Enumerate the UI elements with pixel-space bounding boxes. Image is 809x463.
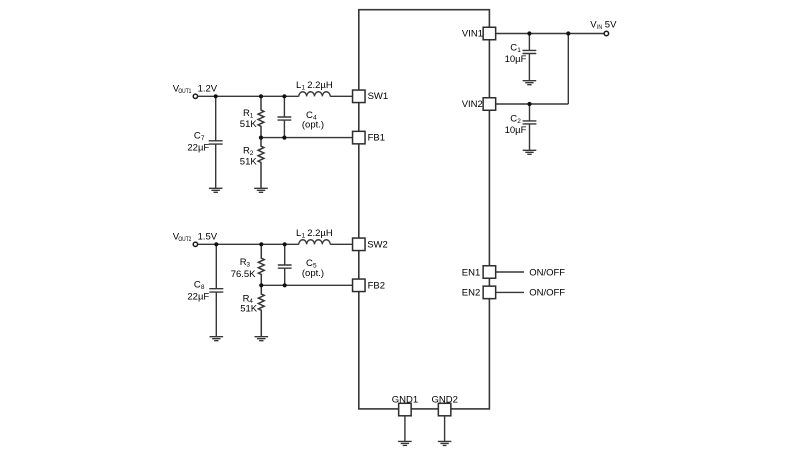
label R4 51K [240, 294, 258, 315]
svg-text:L: L [296, 228, 301, 239]
wire VOUT2 row left [198, 243, 299, 245]
label VOUT1 1.2V [173, 83, 218, 95]
ground (C1) [523, 81, 537, 85]
pin SW1 [353, 90, 366, 103]
label R1 51K [240, 108, 258, 130]
svg-text:51K: 51K [240, 156, 258, 167]
wire GND2 [444, 416, 446, 442]
capacitor C4 [278, 96, 292, 137]
pin GND1 [399, 403, 412, 416]
label C2 10uF [505, 114, 527, 136]
resistor R1 [258, 96, 264, 137]
svg-text:C: C [510, 114, 517, 125]
svg-text:EN1: EN1 [462, 267, 480, 278]
junction row3 R3 [259, 242, 263, 246]
capacitor C5 [278, 244, 292, 285]
wire VOUT1 row left [198, 95, 299, 97]
svg-text:1.2V: 1.2V [198, 83, 218, 94]
wire GND1 [404, 416, 406, 442]
svg-text:L: L [296, 80, 301, 91]
svg-text:VIN2: VIN2 [462, 99, 483, 110]
svg-text:3: 3 [246, 262, 250, 269]
capacitor C7 [209, 96, 223, 188]
svg-text:5V: 5V [605, 19, 617, 30]
svg-text:51K: 51K [240, 119, 258, 130]
svg-text:22µF: 22µF [187, 292, 209, 303]
svg-text:22µF: 22µF [187, 143, 209, 154]
svg-text:10µF: 10µF [505, 125, 527, 136]
wire EN2 [496, 291, 524, 293]
svg-text:76.5K: 76.5K [231, 269, 256, 280]
node VIN terminal [604, 31, 608, 35]
ground (R4) [255, 337, 269, 341]
svg-text:(opt.): (opt.) [302, 120, 324, 131]
ground (R2) [254, 188, 268, 192]
junction FB2 R4 [259, 283, 263, 287]
junction FB1 C4 [282, 136, 286, 140]
svg-text:10µF: 10µF [505, 54, 527, 65]
op-amp U1 IC body [359, 10, 490, 409]
svg-text:(opt.): (opt.) [302, 268, 324, 279]
node VOUT2 terminal [193, 242, 197, 246]
svg-text:1.5V: 1.5V [198, 232, 218, 243]
svg-text:OUT1: OUT1 [178, 88, 191, 95]
label C8 22uF [187, 280, 209, 303]
svg-text:8: 8 [201, 284, 205, 291]
svg-text:EN2: EN2 [462, 288, 480, 299]
capacitor C2 [523, 104, 537, 150]
svg-text:VIN1: VIN1 [462, 29, 483, 40]
wire L1 to SW1 [330, 95, 352, 97]
svg-text:SW2: SW2 [367, 240, 388, 251]
label C7 22uF [187, 131, 209, 154]
svg-text:2.2µH: 2.2µH [307, 228, 333, 239]
wire FB1 row [261, 137, 353, 139]
resistor R3 [258, 244, 264, 285]
wire VIN1 to VIN2 vertical [567, 34, 569, 105]
ground (GND1) [398, 441, 412, 445]
svg-text:GND1: GND1 [392, 395, 418, 406]
wire VIN1 row right [496, 33, 604, 35]
junction row3 C5 [283, 242, 287, 246]
label C4 (opt.) [302, 110, 324, 131]
resistor R2 [258, 138, 264, 189]
label R2 51K [240, 145, 258, 167]
svg-text:IN: IN [597, 24, 602, 31]
svg-text:2.2µH: 2.2µH [307, 80, 333, 91]
svg-text:7: 7 [201, 135, 205, 142]
inductor L1 (bottom) [299, 240, 330, 245]
junction row1 R1 [259, 94, 263, 98]
svg-text:1: 1 [302, 233, 306, 240]
svg-text:1: 1 [302, 85, 306, 92]
svg-text:OUT2: OUT2 [178, 236, 191, 243]
pin FB2 [353, 279, 366, 292]
ground (C8) [210, 337, 224, 341]
junction row1 C4 [282, 94, 286, 98]
value L1 2.2uH (top) [296, 80, 333, 92]
svg-text:ON/OFF: ON/OFF [529, 288, 565, 299]
wire VIN2 row [496, 103, 569, 105]
svg-text:GND2: GND2 [432, 395, 458, 406]
wire L1 to SW2 [330, 243, 352, 245]
label R3 76.5K [231, 257, 256, 280]
node VOUT1 terminal [193, 94, 197, 98]
inductor L1 (top) [299, 92, 330, 97]
pin EN2 [483, 286, 496, 299]
junction row3 C8 [214, 242, 218, 246]
pin FB1 [353, 131, 366, 144]
junction row1 C7 [214, 94, 218, 98]
ground (C2) [523, 150, 537, 154]
svg-text:C: C [194, 131, 201, 142]
pin GND2 [438, 403, 451, 416]
label VOUT2 1.5V [173, 232, 218, 244]
capacitor C8 [209, 244, 223, 336]
value L1 2.2uH (bottom) [296, 228, 333, 240]
svg-text:FB1: FB1 [368, 133, 385, 144]
resistor R4 [258, 285, 264, 336]
junction FB2 C5 [283, 283, 287, 287]
pin SW2 [353, 238, 366, 251]
capacitor C1 [523, 34, 537, 81]
svg-text:C: C [194, 280, 201, 291]
svg-text:51K: 51K [240, 304, 258, 315]
pin VIN1 [483, 27, 496, 40]
label C5 (opt.) [302, 258, 324, 279]
svg-text:ON/OFF: ON/OFF [529, 267, 565, 278]
wire EN1 [496, 271, 524, 273]
pin VIN2 [483, 98, 496, 111]
svg-text:FB2: FB2 [368, 280, 385, 291]
wire FB2 row [261, 284, 352, 286]
label VIN 5V [590, 19, 617, 31]
junction VIN2 C2 [527, 102, 531, 106]
junction VIN1 branch [566, 31, 570, 35]
ground (C7) [209, 188, 223, 192]
label C1 10uF [505, 43, 527, 65]
pin EN1 [483, 266, 496, 279]
junction FB1 R2 [259, 136, 263, 140]
ground (GND2) [438, 441, 452, 445]
svg-text:SW1: SW1 [368, 91, 389, 102]
svg-text:C: C [510, 43, 517, 54]
junction VIN1 C1 [527, 31, 531, 35]
